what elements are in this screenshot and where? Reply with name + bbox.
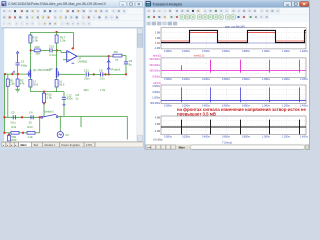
svg-text:V3: V3: [65, 133, 69, 137]
svg-text:abs(z2): abs(z2): [153, 54, 162, 57]
svg-text:1.000m: 1.000m: [262, 78, 270, 81]
svg-text:1.0k: 1.0k: [60, 38, 66, 42]
resistor R15: [29, 32, 31, 35]
schematic v-scrollbar: [137, 28, 143, 141]
svg-text:превышает 3.5 мВ: превышает 3.5 мВ: [177, 111, 216, 116]
svg-text:◂: ◂: [3, 144, 4, 147]
svg-text:-1.0M: -1.0M: [154, 47, 160, 50]
resistor R2: [17, 74, 19, 79]
mini toolbar: [146, 22, 150, 26]
svg-text:Q2: Q2: [49, 67, 53, 71]
svg-text:0.200m: 0.200m: [182, 78, 190, 81]
svg-text:0.600m: 0.600m: [222, 135, 230, 138]
svg-text:0.0M: 0.0M: [155, 42, 160, 45]
wire op-amp output: [77, 55, 109, 57]
svg-text:1.200m: 1.200m: [282, 50, 290, 53]
ground under R2: [17, 86, 19, 89]
resistor R19: [43, 92, 45, 94]
svg-text:0.800m: 0.800m: [242, 135, 250, 138]
svg-text:1.200m: 1.200m: [282, 135, 290, 138]
left window frame: [0, 0, 145, 150]
wire right drop: [126, 116, 128, 139]
right window frame: [145, 0, 311, 150]
wire feedback row / Q2 gate: [60, 73, 85, 75]
plot client area: [145, 21, 309, 144]
left toolbars: [1, 8, 143, 28]
wire gate row: [5, 73, 27, 75]
svg-text:56.6: 56.6: [59, 82, 65, 86]
svg-text:Models 1: Models 1: [44, 143, 55, 147]
svg-text:R60: R60: [11, 138, 16, 142]
right tab bar: [145, 144, 309, 149]
svg-text:C10: C10: [49, 45, 55, 49]
left tab bar: [1, 142, 143, 148]
resistor RS2: [56, 78, 58, 80]
svg-text:56.6: 56.6: [33, 82, 39, 86]
panel 3 blue spikes: [161, 85, 306, 104]
wire Q1 drain: [29, 43, 31, 70]
svg-text:-4.0M: -4.0M: [154, 130, 160, 133]
svg-text:0.400m: 0.400m: [202, 50, 210, 53]
node dot C9 bottom: [125, 73, 127, 75]
svg-text:2u: 2u: [76, 96, 79, 100]
svg-text:20m: 20m: [84, 77, 90, 81]
svg-text:3.8%: 3.8%: [86, 143, 93, 147]
resistor R17: [55, 35, 58, 43]
svg-text:◂: ◂: [7, 144, 8, 147]
panel 2 magenta spikes: [161, 58, 306, 78]
polarity mark: [63, 104, 66, 106]
svg-text:2.0M: 2.0M: [155, 32, 160, 35]
svg-text:30: 30: [29, 120, 33, 124]
svg-text:30m: 30m: [84, 88, 90, 92]
svg-text:C5: C5: [11, 110, 15, 114]
svg-text:0.000m: 0.000m: [164, 135, 172, 138]
svg-text:8u: 8u: [129, 62, 133, 66]
probe element Probe1: [108, 58, 110, 75]
svg-text:300.000m: 300.000m: [150, 70, 161, 73]
node dot: [22, 132, 24, 134]
wire resistor row: [5, 132, 12, 134]
red trace: [161, 33, 306, 41]
svg-text:1.200m: 1.200m: [282, 78, 290, 81]
svg-text:500.000u: 500.000u: [150, 102, 161, 105]
svg-text:1.5k: 1.5k: [47, 96, 53, 100]
svg-text:0.000m: 0.000m: [152, 76, 160, 79]
node dots gate row: [4, 73, 6, 75]
wire left column: [4, 74, 6, 133]
svg-text:▸: ▸: [15, 144, 16, 147]
wire R6 to C9: [122, 55, 126, 57]
svg-text:1.0M: 1.0M: [155, 37, 160, 40]
svg-text:0.0M: 0.0M: [155, 123, 160, 126]
svg-text:R13: R13: [27, 125, 33, 129]
input arrow glyph: [13, 71, 15, 73]
svg-text:3.0n: 3.0n: [10, 120, 16, 124]
svg-text:R20: R20: [35, 45, 41, 49]
svg-text:430p: 430p: [21, 63, 28, 67]
node dot source rail: [43, 90, 45, 92]
node drain2 dot: [56, 49, 58, 51]
svg-text:0.200m: 0.200m: [182, 50, 190, 53]
wire bottom row right: [58, 115, 127, 117]
capacitor C8: [100, 72, 102, 76]
left window app icon: [2, 1, 7, 6]
svg-text:1.0k: 1.0k: [32, 38, 38, 42]
svg-text:T (Secs): T (Secs): [222, 140, 232, 144]
node dot: [104, 73, 106, 75]
panel 4 black bipolar spikes: [161, 116, 306, 135]
svg-text:Switch1: Switch1: [44, 109, 54, 113]
resistor R1: [7, 74, 9, 79]
svg-text:3.500m: 3.500m: [152, 85, 160, 88]
svg-text:1.400m: 1.400m: [300, 78, 308, 81]
svg-text:0.400m: 0.400m: [202, 78, 210, 81]
node dot: [93, 73, 95, 75]
wire R1 bottom down: [7, 86, 9, 117]
svg-text:+0(-30)m: +0(-30)m: [153, 139, 163, 142]
wire top rail: [30, 31, 73, 33]
svg-text:C11: C11: [84, 69, 89, 73]
svg-text:600.000m: 600.000m: [150, 64, 161, 67]
left window caption buttons: [119, 2, 126, 7]
svg-text:▸: ▸: [11, 144, 12, 147]
svg-text:R6: R6: [114, 50, 118, 54]
transistor Q1 2SK170BL: [29, 70, 31, 78]
node drain1 dot: [30, 49, 32, 51]
node dots bottom row: [3, 116, 5, 118]
right toolbars: [145, 8, 309, 22]
node dot: [3, 132, 5, 134]
svg-text:0.200m: 0.200m: [182, 135, 190, 138]
svg-text:70: 70: [115, 58, 119, 62]
svg-text:C4: C4: [29, 110, 33, 114]
resistor R11: [11, 131, 19, 134]
svg-text:2.500m: 2.500m: [152, 91, 160, 94]
svg-text:0.800m: 0.800m: [242, 50, 250, 53]
resistor R60: [8, 133, 10, 136]
svg-text:1.400m: 1.400m: [300, 50, 308, 53]
svg-text:Transient Analysis: Transient Analysis: [152, 2, 182, 6]
capacitor C1 branch with arrow: [16, 51, 19, 53]
capacitor C4: [30, 115, 32, 119]
capacitor C9: [124, 61, 128, 63]
svg-text:47k: 47k: [20, 82, 25, 86]
node rail junction dot: [55, 31, 57, 33]
svg-text:level(1.5): level(1.5): [194, 54, 204, 57]
op-amp U7 LM4562: [67, 51, 77, 62]
svg-text:1.0k: 1.0k: [27, 135, 33, 139]
svg-text:Main: Main: [179, 145, 185, 149]
violet flat trace: [161, 42, 306, 44]
capacitor C12: [63, 92, 65, 97]
wire bottom row left: [5, 116, 40, 118]
source V3: [59, 116, 61, 131]
svg-text:LM4562: LM4562: [78, 60, 88, 64]
svg-text:Probe1: Probe1: [111, 68, 121, 72]
svg-text:Main: Main: [20, 143, 26, 147]
capacitor C10: [40, 49, 50, 51]
svg-text:1.500m: 1.500m: [152, 97, 160, 100]
svg-text:C8: C8: [99, 69, 103, 73]
resistor RS1: [29, 78, 31, 80]
svg-text:1.400m: 1.400m: [300, 135, 308, 138]
svg-text:1.000m: 1.000m: [262, 135, 270, 138]
svg-text:Text: Text: [33, 143, 38, 147]
svg-text:0.600m: 0.600m: [222, 78, 230, 81]
svg-text:R11: R11: [11, 125, 16, 129]
transistor Q2: [56, 68, 58, 78]
resistor R6: [109, 55, 113, 57]
wire source rail: [29, 87, 31, 92]
svg-text:1.0k: 1.0k: [100, 88, 106, 92]
resistor R13: [27, 131, 35, 134]
svg-text:0.600m: 0.600m: [222, 50, 230, 53]
black trace: [161, 30, 306, 42]
resistor R20: [30, 49, 34, 51]
node output dot: [108, 55, 110, 57]
right window app icon: [146, 1, 151, 6]
svg-text:4.0M: 4.0M: [155, 117, 160, 120]
svg-text:◂◂▸▸: ◂◂▸▸: [147, 146, 151, 149]
schematic canvas: [1, 28, 143, 142]
svg-text:0.000m: 0.000m: [164, 78, 172, 81]
svg-text:0.800m: 0.800m: [242, 78, 250, 81]
wire V+ drop: [72, 32, 74, 48]
svg-text:C:\MC10\DATA\Poisv-RIAA-Alex_p: C:\MC10\DATA\Poisv-RIAA-Alex_pm-5R-Max_p…: [8, 2, 106, 6]
capacitor C11: [85, 72, 87, 76]
svg-text:Power Supplies: Power Supplies: [61, 143, 80, 147]
svg-text:0.400m: 0.400m: [202, 135, 210, 138]
wire Q2 drain vertical: [56, 32, 58, 35]
svg-text:430u: 430u: [67, 97, 74, 101]
svg-text:1.000m: 1.000m: [262, 50, 270, 53]
node dot below R19: [43, 102, 45, 104]
wire stub: [80, 116, 82, 127]
svg-text:900.000m: 900.000m: [150, 58, 161, 61]
svg-text:390: 390: [35, 52, 40, 56]
svg-text:1.0n: 1.0n: [99, 77, 105, 81]
svg-text:0.000m: 0.000m: [164, 104, 172, 107]
svg-text:0.01u: 0.01u: [49, 53, 56, 57]
svg-text:0.000m: 0.000m: [164, 50, 172, 53]
svg-text:22k: 22k: [10, 82, 15, 86]
right caption buttons: [284, 1, 292, 6]
capacitor C5: [12, 115, 14, 119]
